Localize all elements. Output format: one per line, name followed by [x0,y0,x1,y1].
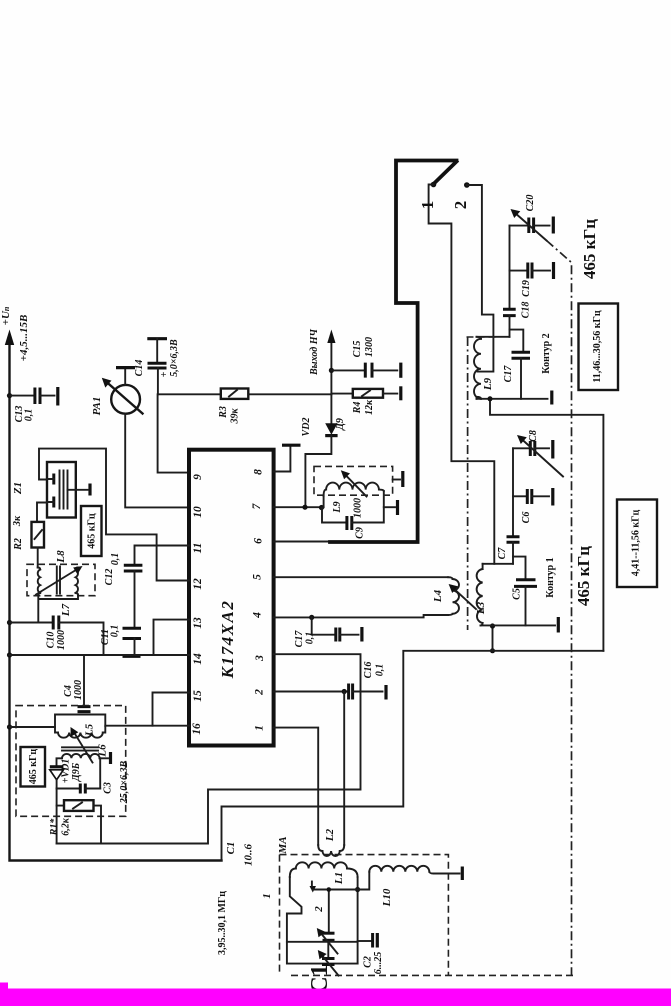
boxed label 465 kHz near Z1 [81,506,102,556]
svg-text:R1*: R1* [49,818,60,837]
boxed label 465 kHz heterodyne [21,747,46,787]
capacitor C17 pin4 [336,627,362,642]
svg-text:0,1: 0,1 [110,553,121,566]
core L7 L8 [57,567,60,594]
wire contour1 bottom drop [490,623,495,650]
svg-text:С14: С14 [134,360,145,377]
capacitor C3 [57,784,101,794]
ground det shield [393,471,403,487]
dashdot shield line A [467,337,469,630]
svg-text:Д9: Д9 [335,418,346,431]
svg-text:25,0×6,3В: 25,0×6,3В [119,760,130,804]
svg-text:L7: L7 [60,603,72,617]
capacitor C16 [349,684,386,700]
capacitor C10 [10,616,104,656]
svg-text:4,41--11,56 кГц: 4,41--11,56 кГц [631,510,642,577]
core L5 L6 [62,747,98,750]
svg-text:С15: С15 [352,341,363,358]
wire pin15 [153,693,190,726]
wire pin2 net [274,689,348,694]
svg-text:Контур 2: Контур 2 [541,333,552,373]
inductor L7 [76,568,79,596]
capacitor C5 [513,557,537,626]
dashed box MA [280,855,574,976]
IC U1 K174XA2 [189,450,274,746]
svg-text:С3: С3 [103,782,114,794]
resistor R2 [32,503,48,568]
output terminal arrow [327,330,335,395]
dashdot shield line B [547,241,572,976]
capacitor C11 [123,628,142,656]
wire L1 right junction [355,877,360,964]
diode VD1 [50,767,64,789]
svg-text:2: 2 [254,689,266,696]
svg-text:L10: L10 [381,888,393,907]
svg-text:14: 14 [192,653,204,665]
contour2 tank bottom wire [477,391,552,405]
svg-text:465 кГц: 465 кГц [580,219,599,279]
svg-text:1000: 1000 [56,630,67,650]
wire pin3 net [57,654,361,843]
svg-text:+Uп: +Uп [0,306,12,325]
wire pin14 supply [10,654,190,656]
svg-text:С6: С6 [521,512,532,524]
svg-text:С16: С16 [363,662,374,679]
svg-text:0,1: 0,1 [375,664,386,677]
svg-text:С17: С17 [294,630,305,648]
svg-text:5,0×6,3В: 5,0×6,3В [169,339,180,377]
svg-text:С20: С20 [525,195,536,212]
svg-text:1300: 1300 [364,337,375,357]
svg-text:0,1: 0,1 [24,409,35,422]
svg-text:39к: 39к [230,408,241,425]
svg-text:3: 3 [254,655,266,662]
inductor L10 [369,866,462,880]
wire pin2 to L2 [343,692,345,846]
svg-text:Z1: Z1 [12,482,24,495]
boxed label 4,41-11,56 [617,500,657,588]
capacitor C9 [347,491,384,530]
capacitor C4 [78,655,91,712]
inductor L9 contour2 [474,337,481,399]
svg-text:С19: С19 [521,280,532,297]
svg-text:6,2к: 6,2к [61,817,72,836]
svg-text:К174ХА2: К174ХА2 [218,600,237,680]
wire pin11 net [135,546,190,565]
inductor L3 [477,564,483,626]
svg-text:С5: С5 [512,588,523,600]
svg-text:С1: С1 [225,842,237,855]
svg-text:8: 8 [253,469,265,475]
svg-text:R4: R4 [352,402,363,415]
boxed label 11,46-30,56 [579,304,619,391]
trimmer arrow det coil [341,470,367,496]
wire pin6 to switch [274,541,345,543]
wire pin8 to ground [274,445,301,471]
svg-text:10..6: 10..6 [243,844,255,867]
svg-text:1: 1 [418,201,437,210]
resistor R3 [221,389,332,399]
svg-text:Контур 1: Контур 1 [545,557,556,597]
dashed box L9 [467,336,498,338]
svg-text:4: 4 [252,612,264,619]
svg-text:R3: R3 [218,406,229,419]
capacitor C7 [507,537,520,564]
svg-text:10: 10 [192,506,204,518]
inductor L5 [10,715,106,738]
svg-text:1: 1 [261,893,273,899]
svg-text:2: 2 [451,201,470,210]
wire L7 L8 bottoms [38,595,78,622]
resistor R4 [331,386,400,400]
capacitor C6 [513,488,553,506]
contact 1 antenna [310,872,370,893]
wire pin1 to L2 [274,728,319,845]
wire pin4 net [274,615,448,635]
transformer L7 L8 dashed box [27,564,95,595]
inductor L1 [290,862,358,877]
contour2 bus wire [509,226,511,308]
capacitor C8 [513,440,553,459]
svg-text:11,46...30,56 кГц: 11,46...30,56 кГц [592,310,603,383]
svg-text:L5: L5 [84,723,96,737]
capacitor C12 [124,565,143,628]
wire pin16 to L5 [105,725,189,727]
svg-text:С17: С17 [503,365,514,383]
svg-text:465 кГц: 465 кГц [574,546,593,606]
svg-text:С9: С9 [355,527,366,539]
svg-text:L2: L2 [324,828,336,842]
svg-text:L9: L9 [482,377,494,391]
trimmer arrow L5 L6 [71,727,93,763]
ground det tank [384,500,398,515]
svg-text:L3: L3 [475,601,487,615]
variable capacitor C1 section a [287,887,358,953]
svg-text:+VD1: +VD1 [61,759,72,784]
svg-text:0,1: 0,1 [110,625,121,638]
dashed shield box detector [314,466,393,495]
capacitor C14 [147,339,167,395]
svg-text:12: 12 [192,578,204,590]
svg-text:R2: R2 [13,538,24,551]
svg-text:5: 5 [252,574,264,580]
wire pin13 [154,620,190,655]
contour1 L3 top wire [483,563,513,565]
supply rail +Un [5,330,222,861]
switch contact 2 [464,182,493,371]
dashed box heterodyne [16,706,126,817]
svg-text:9: 9 [192,474,204,480]
svg-text:L8: L8 [55,550,67,564]
svg-text:L4: L4 [432,589,444,603]
capacitor C2 [358,933,378,948]
svg-text:1000: 1000 [353,498,364,518]
svg-text:Зк: Зк [12,515,23,527]
svg-text:Д9Б: Д9Б [71,762,82,782]
svg-text:13: 13 [192,617,204,629]
svg-text:С18: С18 [521,302,532,319]
resistor R1 [57,789,101,844]
svg-text:465 кГц: 465 кГц [87,513,98,549]
svg-text:12к: 12к [364,399,375,415]
capacitor C13 [10,387,58,406]
svg-text:16: 16 [191,723,203,735]
inductor L4 [448,577,459,615]
capacitor C17 contour2 [510,330,531,399]
svg-text:0,1: 0,1 [305,632,316,645]
wire L1 left and switch blade [287,877,358,964]
svg-text:С2: С2 [363,956,374,968]
inductor L8 [38,568,41,596]
trimmer arrow L7 L8 [36,566,83,595]
svg-text:11: 11 [192,543,204,554]
svg-text:6: 6 [253,538,265,544]
contour1 bus wire [512,448,514,536]
capacitor C20 [510,217,554,234]
svg-text:С7: С7 [497,547,508,560]
capacitor C18 [503,309,516,337]
svg-text:С10: С10 [46,632,57,649]
trimmer arrow C20 [511,209,547,241]
svg-text:1: 1 [254,725,266,731]
capacitor C19 [510,262,554,279]
filter Z1 [47,462,90,518]
svg-text:3,95..30,1 МГц: 3,95..30,1 МГц [217,891,228,955]
meter PA1 [102,368,189,508]
svg-text:2: 2 [313,906,325,913]
svg-text:6...25: 6...25 [373,952,384,975]
trimmer arrow C8 [517,435,563,477]
inductor L6 [57,752,111,789]
svg-text:Выход НЧ: Выход НЧ [309,329,320,376]
variable capacitor C1 section b [318,942,339,976]
svg-text:L1: L1 [333,872,345,885]
svg-text:L6: L6 [97,744,109,758]
inductor L9 det coil [324,483,384,496]
trimmer arrow L3 L4 [449,584,476,609]
svg-text:С12: С12 [104,569,115,586]
magenta bar [0,983,671,1006]
svg-text:15: 15 [192,690,204,702]
contour2 tank top wire [477,336,510,338]
svg-text:PA1: PA1 [91,397,103,416]
contour1 tank bottom wire [481,617,559,633]
svg-text:С8: С8 [528,430,539,442]
svg-text:МА: МА [277,836,289,854]
wire pin7 net [274,496,346,523]
wire pin9 net [158,394,221,472]
svg-text:VD2: VD2 [301,418,312,437]
switch SA1 thick wiring [330,161,494,564]
inductor L2 [318,845,344,856]
capacitor C15 [331,363,400,378]
wire pin5 to L4 [274,576,448,578]
svg-text:+4,5...15В: +4,5...15В [18,315,30,362]
diode VD2 [305,394,337,507]
wire pin12 to Z1 [39,449,189,581]
svg-text:L9: L9 [332,501,343,513]
wire supply return path [222,651,604,861]
svg-text:1000: 1000 [73,680,84,700]
svg-text:465 кГц: 465 кГц [28,749,39,785]
wire contour2 out [490,399,603,651]
